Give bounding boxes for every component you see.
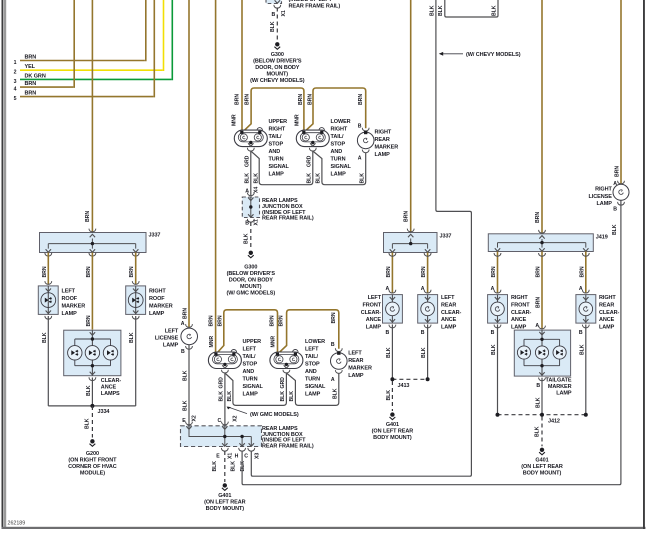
left roof marker lamp (38, 286, 58, 315)
svg-text:B: B (245, 221, 249, 227)
svg-text:BRN: BRN (25, 91, 37, 97)
BLK wires to J413 (389, 325, 396, 328)
svg-text:AND: AND (305, 369, 317, 375)
svg-text:(W/ GMC MODELS): (W/ GMC MODELS) (226, 290, 275, 296)
svg-text:BLK: BLK (536, 397, 542, 408)
wire BRN J337 to clearance lamps (91, 253, 93, 330)
svg-text:BLK: BLK (253, 173, 259, 184)
junction J413 (392, 378, 427, 380)
svg-text:CLEAR-: CLEAR- (441, 310, 462, 316)
svg-text:STOP: STOP (269, 142, 284, 148)
svg-text:MNR: MNR (294, 114, 300, 126)
svg-text:CLEAR-: CLEAR- (599, 310, 620, 316)
svg-text:MOUNT): MOUNT) (240, 284, 262, 290)
svg-text:BRN: BRN (386, 266, 392, 277)
svg-text:ANCE: ANCE (366, 317, 382, 323)
svg-text:LICENSE: LICENSE (155, 335, 179, 341)
svg-text:BLK: BLK (438, 5, 444, 16)
right front clearance lamp (488, 295, 508, 324)
svg-text:MOUNT): MOUNT) (267, 71, 289, 77)
page border right (643, 0, 645, 529)
svg-text:LAMP: LAMP (597, 201, 613, 207)
svg-text:TAIL/: TAIL/ (269, 134, 282, 140)
svg-text:STOP: STOP (331, 142, 346, 148)
svg-text:E: E (216, 453, 220, 459)
svg-text:ROOF: ROOF (62, 296, 78, 302)
svg-text:BRN: BRN (25, 81, 37, 87)
svg-text:G300: G300 (271, 52, 284, 58)
wire BRN J337 to left front clearance lamp (391, 253, 393, 294)
svg-text:LAMP: LAMP (149, 311, 165, 317)
svg-text:REAR: REAR (441, 302, 456, 308)
svg-text:B: B (386, 330, 390, 336)
svg-text:(ON LEFT REAR: (ON LEFT REAR (204, 500, 246, 506)
pin numbers 1-5 (14, 60, 17, 102)
svg-text:BRN: BRN (421, 266, 427, 277)
svg-text:B: B (536, 383, 540, 389)
leader arrow (W/ CHEVY MODELS) (441, 53, 463, 55)
junction J334 bus (48, 405, 135, 407)
svg-text:RIGHT: RIGHT (269, 127, 286, 133)
svg-text:LICENSE: LICENSE (589, 194, 613, 200)
lower left tail/stop lamp (270, 352, 303, 369)
svg-text:BRN: BRN (536, 297, 542, 308)
svg-text:A: A (181, 321, 185, 327)
svg-text:BLK: BLK (289, 391, 295, 402)
svg-text:4: 4 (14, 87, 17, 93)
svg-text:LEFT: LEFT (243, 347, 257, 353)
BLK ground loop upper-right to lower-right (251, 151, 313, 185)
svg-text:BLK: BLK (244, 173, 250, 184)
svg-text:BLK: BLK (359, 173, 365, 184)
svg-text:BRN: BRN (208, 315, 214, 326)
svg-text:TURN: TURN (305, 377, 320, 383)
junction box internal bus (189, 426, 251, 447)
BLK loop wires to top (445, 0, 498, 17)
wire 1 BRN horizontal (20, 0, 172, 234)
wire BRN J337 to right roof marker lamp (135, 253, 137, 285)
svg-text:B: B (358, 124, 362, 130)
svg-text:X2: X2 (232, 415, 238, 421)
svg-text:ANCE: ANCE (599, 317, 615, 323)
svg-text:SIGNAL: SIGNAL (269, 164, 290, 170)
svg-text:MARKER: MARKER (375, 145, 399, 151)
BLK ground loop lower-left to left rear marker (286, 373, 338, 405)
wire BLK left roof marker to J334 (47, 316, 49, 406)
svg-text:BRN: BRN (269, 315, 275, 326)
svg-text:BRN: BRN (25, 54, 37, 60)
svg-text:LAMP: LAMP (375, 152, 391, 158)
svg-text:CLEAR-: CLEAR- (511, 310, 532, 316)
wire BRN J419 to tailgate marker lamp (541, 252, 543, 330)
svg-text:RIGHT: RIGHT (599, 295, 616, 301)
svg-text:262189: 262189 (8, 521, 26, 527)
svg-text:LEFT: LEFT (62, 288, 76, 294)
svg-text:BODY MOUNT): BODY MOUNT) (523, 471, 562, 477)
svg-text:G401: G401 (386, 422, 399, 428)
svg-text:MARKER: MARKER (62, 303, 86, 309)
left rear clearance lamp (418, 295, 438, 324)
svg-text:LAMP: LAMP (243, 392, 259, 398)
wire BRN vertical feed to left J337 (91, 0, 93, 234)
svg-text:G401: G401 (535, 458, 548, 464)
svg-text:REAR: REAR (348, 358, 363, 364)
svg-text:BRN: BRN (535, 212, 541, 223)
svg-text:J337: J337 (440, 234, 452, 240)
svg-text:BLK: BLK (86, 385, 92, 396)
svg-text:LAMP: LAMP (348, 373, 364, 379)
wire 3 DK GRN horizontal (20, 0, 172, 80)
svg-text:STOP: STOP (243, 362, 258, 368)
svg-text:5: 5 (14, 96, 17, 102)
svg-text:G401: G401 (218, 493, 231, 499)
left front clearance lamp (383, 295, 403, 324)
svg-text:BLK: BLK (183, 400, 189, 411)
svg-text:BRN: BRN (358, 94, 364, 105)
svg-text:LEFT: LEFT (165, 328, 179, 334)
wire 5 BRN horizontal (20, 0, 154, 97)
svg-text:DOOR, ON BODY: DOOR, ON BODY (255, 65, 300, 71)
svg-text:BRN: BRN (536, 266, 542, 277)
right rear clearance lamp (576, 295, 596, 324)
BLK wires from clearance lamps to J412 (494, 325, 501, 328)
dashed BLK wire to G200 (91, 406, 93, 438)
wire BRN loop upper-left pin to lower-left pin (216, 310, 278, 354)
svg-text:FRONT: FRONT (511, 302, 530, 308)
svg-text:BLK: BLK (306, 173, 312, 184)
svg-text:TAIL/: TAIL/ (331, 134, 344, 140)
svg-text:B: B (272, 12, 276, 18)
svg-text:BLK: BLK (243, 233, 249, 244)
ground G200 (90, 439, 96, 446)
svg-text:LEFT: LEFT (348, 351, 362, 357)
wire BLK license to junction box pin E (188, 345, 190, 426)
svg-text:BLK: BLK (429, 5, 435, 16)
svg-text:(W/ CHEVY MODELS): (W/ CHEVY MODELS) (250, 78, 305, 84)
svg-text:ANCE: ANCE (441, 317, 457, 323)
svg-text:LAMP: LAMP (305, 392, 321, 398)
svg-text:CLEAR-: CLEAR- (101, 378, 122, 384)
svg-text:BLK: BLK (240, 461, 246, 472)
wire MNR feed upper right tail lamp (241, 0, 243, 131)
page border bottom (2, 527, 646, 529)
J337 internal bus (48, 239, 135, 249)
dashed BLK wire pin E to G401 (224, 451, 226, 482)
GRD wire upper-left lamp to junction box pin C (224, 373, 226, 426)
svg-text:ROOF: ROOF (149, 296, 165, 302)
svg-text:BLK: BLK (227, 391, 233, 402)
svg-text:BRN: BRN (298, 94, 304, 105)
svg-text:BLK: BLK (280, 391, 286, 402)
svg-text:MNR: MNR (231, 114, 237, 126)
svg-text:X1: X1 (228, 453, 234, 459)
svg-text:B: B (421, 330, 425, 336)
svg-text:MARKER: MARKER (548, 384, 572, 390)
svg-text:ANCE: ANCE (511, 317, 527, 323)
svg-text:LOWER: LOWER (305, 339, 325, 345)
svg-text:BLK: BLK (219, 391, 225, 402)
svg-text:CORNER OF HVAC: CORNER OF HVAC (68, 464, 117, 470)
svg-text:(ON LEFT REAR: (ON LEFT REAR (521, 464, 563, 470)
wire MNR feed upper left tail lamp (215, 0, 217, 353)
svg-text:BRN: BRN (235, 94, 241, 105)
svg-text:BRN: BRN (129, 266, 135, 277)
svg-text:G300: G300 (244, 264, 257, 270)
wire BLK right front clearance lamp to J412 (497, 325, 499, 415)
svg-text:MNR: MNR (209, 336, 215, 348)
BLK ground loop lower-right to right rear marker (313, 151, 366, 185)
svg-text:X3: X3 (255, 453, 261, 459)
svg-text:LAMP: LAMP (441, 325, 457, 331)
svg-text:BLK: BLK (270, 21, 276, 32)
svg-text:A: A (331, 377, 335, 383)
wire BRN J337 to left rear clearance lamp (427, 253, 429, 294)
svg-text:REAR: REAR (599, 302, 614, 308)
rear lamps junction box (Chevy, middle) (242, 197, 259, 218)
svg-text:LAMP: LAMP (163, 342, 179, 348)
BLK wire clearance lamps to J334 (91, 378, 93, 406)
svg-text:BLK: BLK (212, 461, 218, 472)
svg-text:RIGHT: RIGHT (331, 127, 348, 133)
svg-text:J419: J419 (596, 234, 608, 240)
svg-text:(W/ GMC MODELS): (W/ GMC MODELS) (250, 412, 299, 418)
svg-text:TURN: TURN (269, 157, 284, 163)
svg-text:BLK: BLK (491, 344, 497, 355)
dashed BLK to G401 (391, 381, 393, 411)
svg-text:(BELOW DRIVER'S: (BELOW DRIVER'S (253, 58, 302, 64)
svg-text:LAMP: LAMP (366, 325, 382, 331)
svg-text:(INSIDE OF LEFT: (INSIDE OF LEFT (289, 0, 333, 3)
svg-text:BLK: BLK (42, 332, 48, 343)
svg-text:AND: AND (243, 369, 255, 375)
svg-text:RIGHT: RIGHT (149, 288, 166, 294)
svg-text:REAR FRAME RAIL): REAR FRAME RAIL) (289, 4, 341, 10)
left rear marker lamp (335, 348, 342, 351)
BLK wire pin C/X3 return to top (W/ CHEVY) (251, 0, 471, 476)
svg-text:MARKER: MARKER (149, 303, 173, 309)
svg-text:YEL: YEL (25, 64, 36, 70)
tailgate marker lamp assembly (514, 330, 570, 376)
right rear marker lamp (362, 128, 369, 131)
svg-text:BRN: BRN (42, 266, 48, 277)
svg-text:BRN: BRN (579, 266, 585, 277)
svg-text:MODULE): MODULE) (80, 471, 105, 477)
upper right tail/stop lamp (234, 130, 267, 147)
svg-text:X1: X1 (254, 219, 260, 225)
svg-text:B: B (181, 349, 185, 355)
svg-text:BLK: BLK (386, 390, 392, 401)
svg-text:BLK: BLK (386, 347, 392, 358)
svg-text:CLEAR-: CLEAR- (361, 310, 382, 316)
svg-text:H: H (235, 453, 239, 459)
wire color labels (25, 54, 46, 96)
svg-text:AND: AND (331, 149, 343, 155)
svg-text:B: B (491, 330, 495, 336)
leader arrow (W/ GMC MODELS) (228, 407, 247, 414)
svg-text:BRN: BRN (615, 166, 621, 177)
svg-text:LEFT: LEFT (305, 347, 319, 353)
svg-text:BODY MOUNT): BODY MOUNT) (373, 435, 412, 441)
svg-text:BLK: BLK (421, 347, 427, 358)
svg-text:BODY MOUNT): BODY MOUNT) (206, 506, 245, 512)
wire BRN loop upper-right pin to lower-right pin (242, 88, 304, 132)
wire BRN license feed (188, 0, 190, 328)
svg-text:MARKER: MARKER (348, 366, 372, 372)
svg-text:BLK: BLK (231, 461, 237, 472)
svg-text:LOWER: LOWER (331, 119, 351, 125)
svg-text:BRN: BRN (491, 266, 497, 277)
dashed BLK wire to G300 (GMC) (250, 222, 252, 250)
clearance lamps assembly (64, 330, 121, 376)
svg-text:1: 1 (14, 60, 17, 66)
svg-text:TAILGATE: TAILGATE (545, 377, 571, 383)
svg-text:J412: J412 (548, 419, 560, 425)
svg-text:BRN: BRN (183, 308, 189, 319)
svg-text:TAIL/: TAIL/ (305, 354, 318, 360)
svg-text:BRN: BRN (217, 315, 223, 326)
dashed BLK to G401 (right) (541, 417, 543, 447)
wire BRN J419 to right rear clearance lamp (585, 252, 587, 294)
svg-text:BLK: BLK (84, 418, 90, 429)
wire 2 YEL horizontal (20, 0, 164, 71)
svg-text:BLK: BLK (332, 388, 338, 399)
svg-text:BLK: BLK (491, 5, 497, 16)
svg-text:(ON LEFT REAR: (ON LEFT REAR (372, 429, 414, 435)
svg-text:GRD: GRD (244, 155, 250, 167)
svg-text:BRN: BRN (245, 94, 251, 105)
GRD wire upper-right lamp to chevy junction box pin A (250, 151, 252, 196)
svg-text:BRN: BRN (307, 94, 313, 105)
svg-text:X4: X4 (254, 187, 260, 193)
svg-text:UPPER: UPPER (269, 119, 288, 125)
connector J337 box (40, 233, 147, 253)
svg-text:RIGHT: RIGHT (511, 295, 528, 301)
svg-text:SIGNAL: SIGNAL (305, 384, 326, 390)
svg-text:BRN: BRN (331, 312, 337, 323)
svg-text:ANCE: ANCE (101, 384, 117, 390)
svg-text:LAMP: LAMP (556, 391, 572, 397)
svg-text:BLK: BLK (183, 370, 189, 381)
upper left tail/stop lamp (208, 352, 241, 369)
svg-text:REAR FRAME RAIL): REAR FRAME RAIL) (262, 443, 314, 449)
svg-text:LAMP: LAMP (599, 325, 615, 331)
svg-text:(W/ CHEVY MODELS): (W/ CHEVY MODELS) (466, 52, 521, 58)
svg-text:DK GRN: DK GRN (25, 73, 46, 79)
svg-text:C: C (218, 418, 222, 424)
svg-text:REAR FRAME RAIL): REAR FRAME RAIL) (262, 216, 314, 222)
svg-text:G200: G200 (86, 451, 99, 457)
svg-text:SIGNAL: SIGNAL (243, 384, 264, 390)
svg-text:A: A (358, 156, 362, 162)
svg-text:DOOR, ON BODY: DOOR, ON BODY (229, 277, 274, 283)
svg-text:BRN: BRN (279, 315, 285, 326)
svg-text:B: B (613, 207, 617, 213)
svg-text:BRN: BRN (85, 211, 91, 222)
wire 4 BRN horizontal (20, 0, 74, 88)
wire BRN J419 to right front clearance lamp (497, 252, 499, 294)
svg-text:MNR: MNR (271, 336, 277, 348)
svg-text:X2: X2 (191, 415, 197, 421)
wire BLK right rear clearance lamp to J412 (585, 325, 587, 415)
svg-text:AND: AND (269, 149, 281, 155)
svg-text:J334: J334 (98, 409, 111, 415)
junction J412 (498, 414, 586, 416)
svg-text:REAR: REAR (375, 137, 390, 143)
svg-text:B: B (579, 330, 583, 336)
svg-text:TURN: TURN (331, 157, 346, 163)
svg-text:BLK: BLK (612, 224, 618, 235)
svg-text:J337: J337 (149, 233, 161, 239)
svg-text:2: 2 (14, 70, 17, 76)
svg-text:RIGHT: RIGHT (375, 130, 392, 136)
svg-text:LAMP: LAMP (331, 172, 347, 178)
svg-text:C: C (244, 453, 248, 459)
wire BRN loop lower-left pin to left rear marker (277, 310, 338, 354)
svg-text:GRD: GRD (306, 155, 312, 167)
svg-text:TAIL/: TAIL/ (243, 354, 256, 360)
svg-text:SIGNAL: SIGNAL (331, 164, 352, 170)
svg-text:BRN: BRN (86, 266, 92, 277)
svg-text:LEFT: LEFT (441, 295, 455, 301)
svg-text:TURN: TURN (243, 377, 258, 383)
BLK wire pin H to right license lamp ground (242, 199, 621, 485)
svg-text:GRD: GRD (280, 377, 286, 389)
svg-text:RIGHT: RIGHT (595, 187, 612, 193)
left license lamp bulb (181, 328, 198, 345)
svg-text:(ON RIGHT FRONT: (ON RIGHT FRONT (68, 458, 117, 464)
svg-text:BRN: BRN (86, 315, 92, 326)
lower right tail/stop lamp (296, 130, 329, 147)
svg-text:BLK: BLK (535, 426, 541, 437)
svg-text:(BELOW DRIVER'S: (BELOW DRIVER'S (227, 271, 276, 277)
svg-text:FRONT: FRONT (362, 302, 381, 308)
right roof marker lamp (126, 286, 146, 315)
svg-text:LAMPS: LAMPS (101, 391, 120, 397)
svg-text:LEFT: LEFT (368, 295, 382, 301)
svg-text:J413: J413 (398, 383, 410, 389)
svg-text:UPPER: UPPER (243, 339, 262, 345)
page border left (2, 0, 4, 529)
wire BRN J337 to left roof marker lamp (47, 253, 49, 285)
svg-text:3: 3 (14, 79, 17, 85)
svg-text:GRD: GRD (219, 377, 225, 389)
svg-text:STOP: STOP (305, 362, 320, 368)
wire BLK right roof marker to J334 (135, 316, 137, 406)
svg-text:BRN: BRN (404, 211, 410, 222)
svg-text:X1: X1 (281, 10, 287, 16)
svg-text:LAMP: LAMP (62, 311, 78, 317)
svg-text:LAMP: LAMP (269, 172, 285, 178)
svg-text:BLK: BLK (129, 332, 135, 343)
BLK ground loop upper-left to lower-left (225, 373, 287, 406)
svg-text:B: B (331, 342, 335, 348)
wire BRN loop lower-right pin to right rear marker (304, 88, 366, 132)
svg-text:BLK: BLK (316, 173, 322, 184)
svg-text:BLK: BLK (579, 344, 585, 355)
